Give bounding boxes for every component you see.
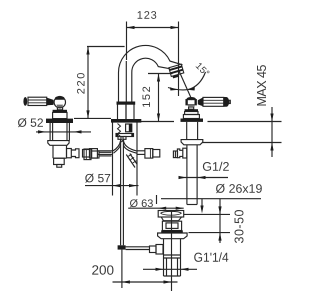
svg-text:220: 220 — [76, 71, 88, 94]
svg-text:MAX 45: MAX 45 — [255, 64, 269, 106]
svg-text:152: 152 — [141, 85, 153, 108]
svg-text:123: 123 — [137, 10, 158, 22]
svg-text:15°: 15° — [193, 61, 212, 80]
svg-text:Ø 26x19: Ø 26x19 — [215, 182, 262, 196]
svg-text:G1/2: G1/2 — [202, 160, 229, 174]
svg-text:Ø 57: Ø 57 — [85, 171, 111, 185]
svg-text:200: 200 — [91, 263, 114, 278]
svg-text:Ø 63: Ø 63 — [129, 198, 153, 210]
svg-text:30-50: 30-50 — [232, 209, 246, 243]
svg-text:G1'1/4: G1'1/4 — [194, 250, 229, 265]
svg-text:Ø 52: Ø 52 — [17, 116, 43, 130]
